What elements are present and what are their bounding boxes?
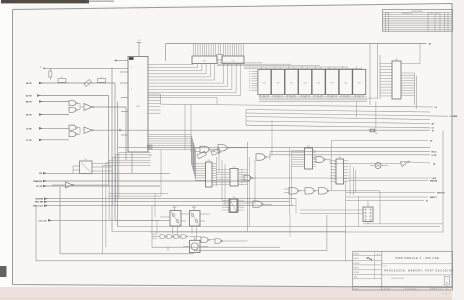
svg-text:A0: A0 [429,43,431,46]
inverter U35 on Q3 line [330,159,435,166]
svg-text:U26: U26 [276,83,279,85]
register U16 [222,197,244,212]
svg-text:U1B: U1B [72,125,75,127]
svg-text:U13: U13 [207,160,210,162]
wire from U38 bottom [131,153,133,173]
buffer U33 [392,59,401,99]
and gate U15B [218,145,248,152]
svg-text:U28: U28 [303,83,306,85]
svg-text:SHEET: SHEET [432,288,437,290]
svg-text:U31: U31 [344,83,347,85]
svg-text:R2: R2 [100,77,102,79]
decoder U14 [216,166,248,186]
svg-text:L5 TN: L5 TN [432,155,437,157]
and gate U23 [313,157,331,164]
svg-text:LTR: LTR [386,13,389,15]
data bus wires to right edge [161,104,458,130]
RAM data band wires [259,96,367,104]
U38 bottom routed wires to left bus [103,152,151,253]
nand gate U1B pair [69,125,80,137]
svg-text:R1: R1 [61,77,63,79]
svg-text:U32: U32 [358,83,361,85]
nand gate U42 [201,237,215,243]
U38 lower pin wires to decoder U13 [148,135,206,181]
svg-text:C0: C0 [435,107,437,109]
nand gate U17B [256,154,270,161]
pull-up resistor R3 [49,68,52,79]
node line with junction dot [40,65,128,69]
buffer gate U2B [84,127,434,133]
nand gate U17C [253,201,272,208]
svg-text:U36: U36 [203,61,206,63]
U38 right pin bus wires (upper) [148,65,240,96]
power +5V at Q5 [173,207,177,211]
svg-text:DESIGN: DESIGN [354,263,360,265]
DRAM U28 [299,66,312,97]
DRAM U29 [312,66,325,97]
DRAM U25 [258,66,271,97]
svg-text:U25: U25 [263,83,266,85]
nand gate U1A pair [69,99,80,112]
svg-text:B: B [131,89,132,91]
decoder U18 [331,157,356,195]
svg-text:RAM WA: RAM WA [430,180,438,183]
svg-text:1 OF 2: 1 OF 2 [439,288,443,290]
left bottom routing wire [60,187,194,254]
RAM band risers [357,98,378,133]
signal RAM WA wire [348,180,438,183]
long bus y147 [118,146,430,148]
svg-text:ROM MODULE 2 - 800 USE: ROM MODULE 2 - 800 USE [396,257,440,260]
bottom routing loop wire [152,193,327,250]
connector J4 [300,201,373,224]
signal PORT EN wire [346,193,445,195]
DRAM U27 [285,66,298,97]
signal W wire [346,201,428,203]
oscillator Y2 [370,163,388,169]
svg-text:U37: U37 [231,61,234,63]
svg-text:U29: U29 [317,83,320,85]
svg-text:A9 TN: A9 TN [26,95,32,98]
svg-text:MUX WR: MUX WR [35,202,44,204]
U38 right pin wires (middle) to data bus [148,94,217,152]
svg-text:REVISIONS: REVISIONS [412,11,424,13]
revision table [383,10,453,32]
inverter U3 [52,166,109,188]
DRAM U26 [271,66,284,97]
resistor R2 [98,79,106,83]
svg-text:ISSUED: ISSUED [354,272,361,274]
svg-text:PROCESSOR, MEMORY, PORT DECODI: PROCESSOR, MEMORY, PORT DECODING [384,270,454,272]
svg-text:MUX EN: MUX EN [36,198,44,200]
or gate U24A [284,188,305,195]
address latch U37 [222,44,244,64]
svg-text:d q: d q [277,96,279,98]
DRAM U32 [353,66,366,97]
svg-text:PORT EN: PORT EN [437,193,445,195]
signal CA W wire [250,177,436,180]
U38 left pin wires [114,60,128,135]
flip-flop Q5 [160,211,190,227]
power +5V [137,40,142,57]
svg-text:d q: d q [345,96,347,98]
svg-text:U30: U30 [331,83,334,85]
bottom long wire [36,206,353,261]
latch enable part between latches [217,44,223,61]
svg-text:U18: U18 [338,157,341,159]
resistor R1 [58,79,66,83]
svg-text:d q: d q [304,96,306,98]
svg-text:C6: C6 [432,128,434,130]
DRAM U31 [339,66,352,97]
svg-text:U27: U27 [290,83,293,85]
rc network angled parts [197,149,220,159]
nand gate U17A [244,175,256,181]
signal D0 wire [331,141,432,191]
bottom right routing wires [150,130,443,260]
svg-text:U22: U22 [307,146,310,148]
svg-text:DESCRIPTION: DESCRIPTION [402,13,412,15]
or gate U24B [305,188,319,195]
latch output verticals [194,64,241,96]
svg-text:A6: A6 [432,122,434,125]
address bus A0 [166,43,431,61]
U33 right fan wires [401,44,420,109]
svg-text:RD L5: RD L5 [432,152,437,154]
flip-flop U21 [73,159,113,174]
signal RD L5 wire [270,152,436,154]
svg-text:REV: REV [446,278,449,280]
svg-text:D0: D0 [430,141,432,143]
decoder U13 [206,160,217,187]
svg-text:NOTES: NOTES [354,288,359,290]
title block [353,251,454,294]
left routing bus wires [109,68,441,231]
address latch U36 [192,44,217,64]
mid routing verticals [248,121,273,232]
svg-text:TITLE: TITLE [383,266,387,268]
svg-text:U33: U33 [395,59,398,61]
FF output vertical wires [173,226,197,240]
svg-text:4B TN: 4B TN [26,101,32,104]
signal L5 TN wire [270,155,437,157]
signal RAM TO wire [346,196,437,199]
svg-text:d q: d q [318,96,320,98]
svg-text:U14: U14 [233,166,236,168]
svg-text:U38: U38 [149,155,152,157]
svg-text:FRAM EN: FRAM EN [33,180,42,183]
svg-text:2B TN: 2B TN [26,83,32,85]
svg-text:C7 TN: C7 TN [26,140,32,142]
diode CR1 [84,80,92,87]
buffer gate U2A [80,104,126,111]
power +5V at Q6 [192,207,196,211]
U38 pin number marks [147,145,152,150]
wires left of decoder [109,150,169,196]
gate chain U41 [152,234,201,239]
svg-text:d q: d q [291,96,293,98]
microprocessor U38 [128,57,152,157]
svg-text:RAM TO: RAM TO [430,196,437,199]
svg-text:WXYZ CLK: WXYZ CLK [33,206,44,208]
wires U13 to U14 [217,148,226,206]
svg-text:d q: d q [263,96,265,98]
RAM row input stubs [249,70,258,92]
svg-text:L17 MEM: L17 MEM [450,116,458,118]
svg-text:CHECK: CHECK [354,258,359,260]
signal 2B TN with resistors R1 R2 [26,77,115,86]
latch U22 [290,146,317,214]
svg-text:LTC W: LTC W [36,186,42,188]
or gate U24C [319,188,381,195]
svg-text:Q3: Q3 [433,164,435,166]
flip-flop Q6 [190,211,211,227]
ferrite bead FB1 on W bus [370,129,375,132]
svg-text:2B TN: 2B TN [26,115,32,117]
and gate U15A [194,146,218,153]
svg-text:LTC CLK: LTC CLK [39,220,48,222]
RAM address fan wires [217,63,362,68]
svg-text:d q: d q [331,96,333,98]
svg-text:CA W: CA W [432,177,437,180]
svg-text:d q: d q [358,96,360,98]
U33 left fan wires [370,44,392,106]
DRAM U30 [326,66,339,97]
crystal oscillator Y1 [183,237,208,253]
driver U30 with transistor [229,199,253,213]
svg-text:U21: U21 [84,159,87,161]
buffer U43 [215,239,248,244]
svg-text:C5 TN: C5 TN [26,128,32,130]
